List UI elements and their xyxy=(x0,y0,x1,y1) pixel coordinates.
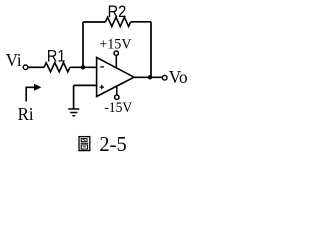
ground xyxy=(68,109,79,116)
terminal Vi (open circle) xyxy=(23,65,28,70)
label R2 xyxy=(108,3,127,21)
terminal +15V (open circle) xyxy=(114,51,118,55)
op-amp minus sign xyxy=(100,66,104,68)
wire to ground xyxy=(73,85,75,109)
wire feedback right vertical xyxy=(150,22,152,78)
op-amp plus sign xyxy=(100,85,104,89)
resistor R1 xyxy=(44,63,70,72)
wire R1 to op-amp inverting input xyxy=(70,66,97,68)
svg-text:-15V: -15V xyxy=(104,100,132,116)
svg-text:2-5: 2-5 xyxy=(99,132,126,156)
arrow Ri input-resistance indicator xyxy=(26,87,35,101)
wire feedback left vertical xyxy=(82,22,84,67)
wire non-inverting input xyxy=(74,84,97,86)
label R1 xyxy=(47,48,65,66)
wire feedback top left segment xyxy=(83,21,106,23)
svg-text:+15V: +15V xyxy=(99,36,131,52)
svg-text:Vi: Vi xyxy=(6,50,22,70)
node output junction dot xyxy=(148,75,152,79)
op-amp U1 triangle xyxy=(97,57,134,96)
wire +15V to op-amp top xyxy=(115,55,117,69)
wire feedback top right segment xyxy=(131,21,151,23)
wire op-amp output xyxy=(134,76,162,78)
wire -15V to op-amp bottom xyxy=(116,86,118,95)
caption character 圖 (figure) xyxy=(79,137,90,151)
resistor R2 xyxy=(106,17,131,26)
svg-text:Vo: Vo xyxy=(169,67,188,87)
svg-text:Ri: Ri xyxy=(18,104,34,124)
node A junction dot (inverting input node) xyxy=(81,65,85,69)
terminal Vo (open circle) xyxy=(162,75,167,80)
wire Vi terminal to R1 xyxy=(28,66,44,68)
terminal -15V (open circle) xyxy=(115,95,119,99)
